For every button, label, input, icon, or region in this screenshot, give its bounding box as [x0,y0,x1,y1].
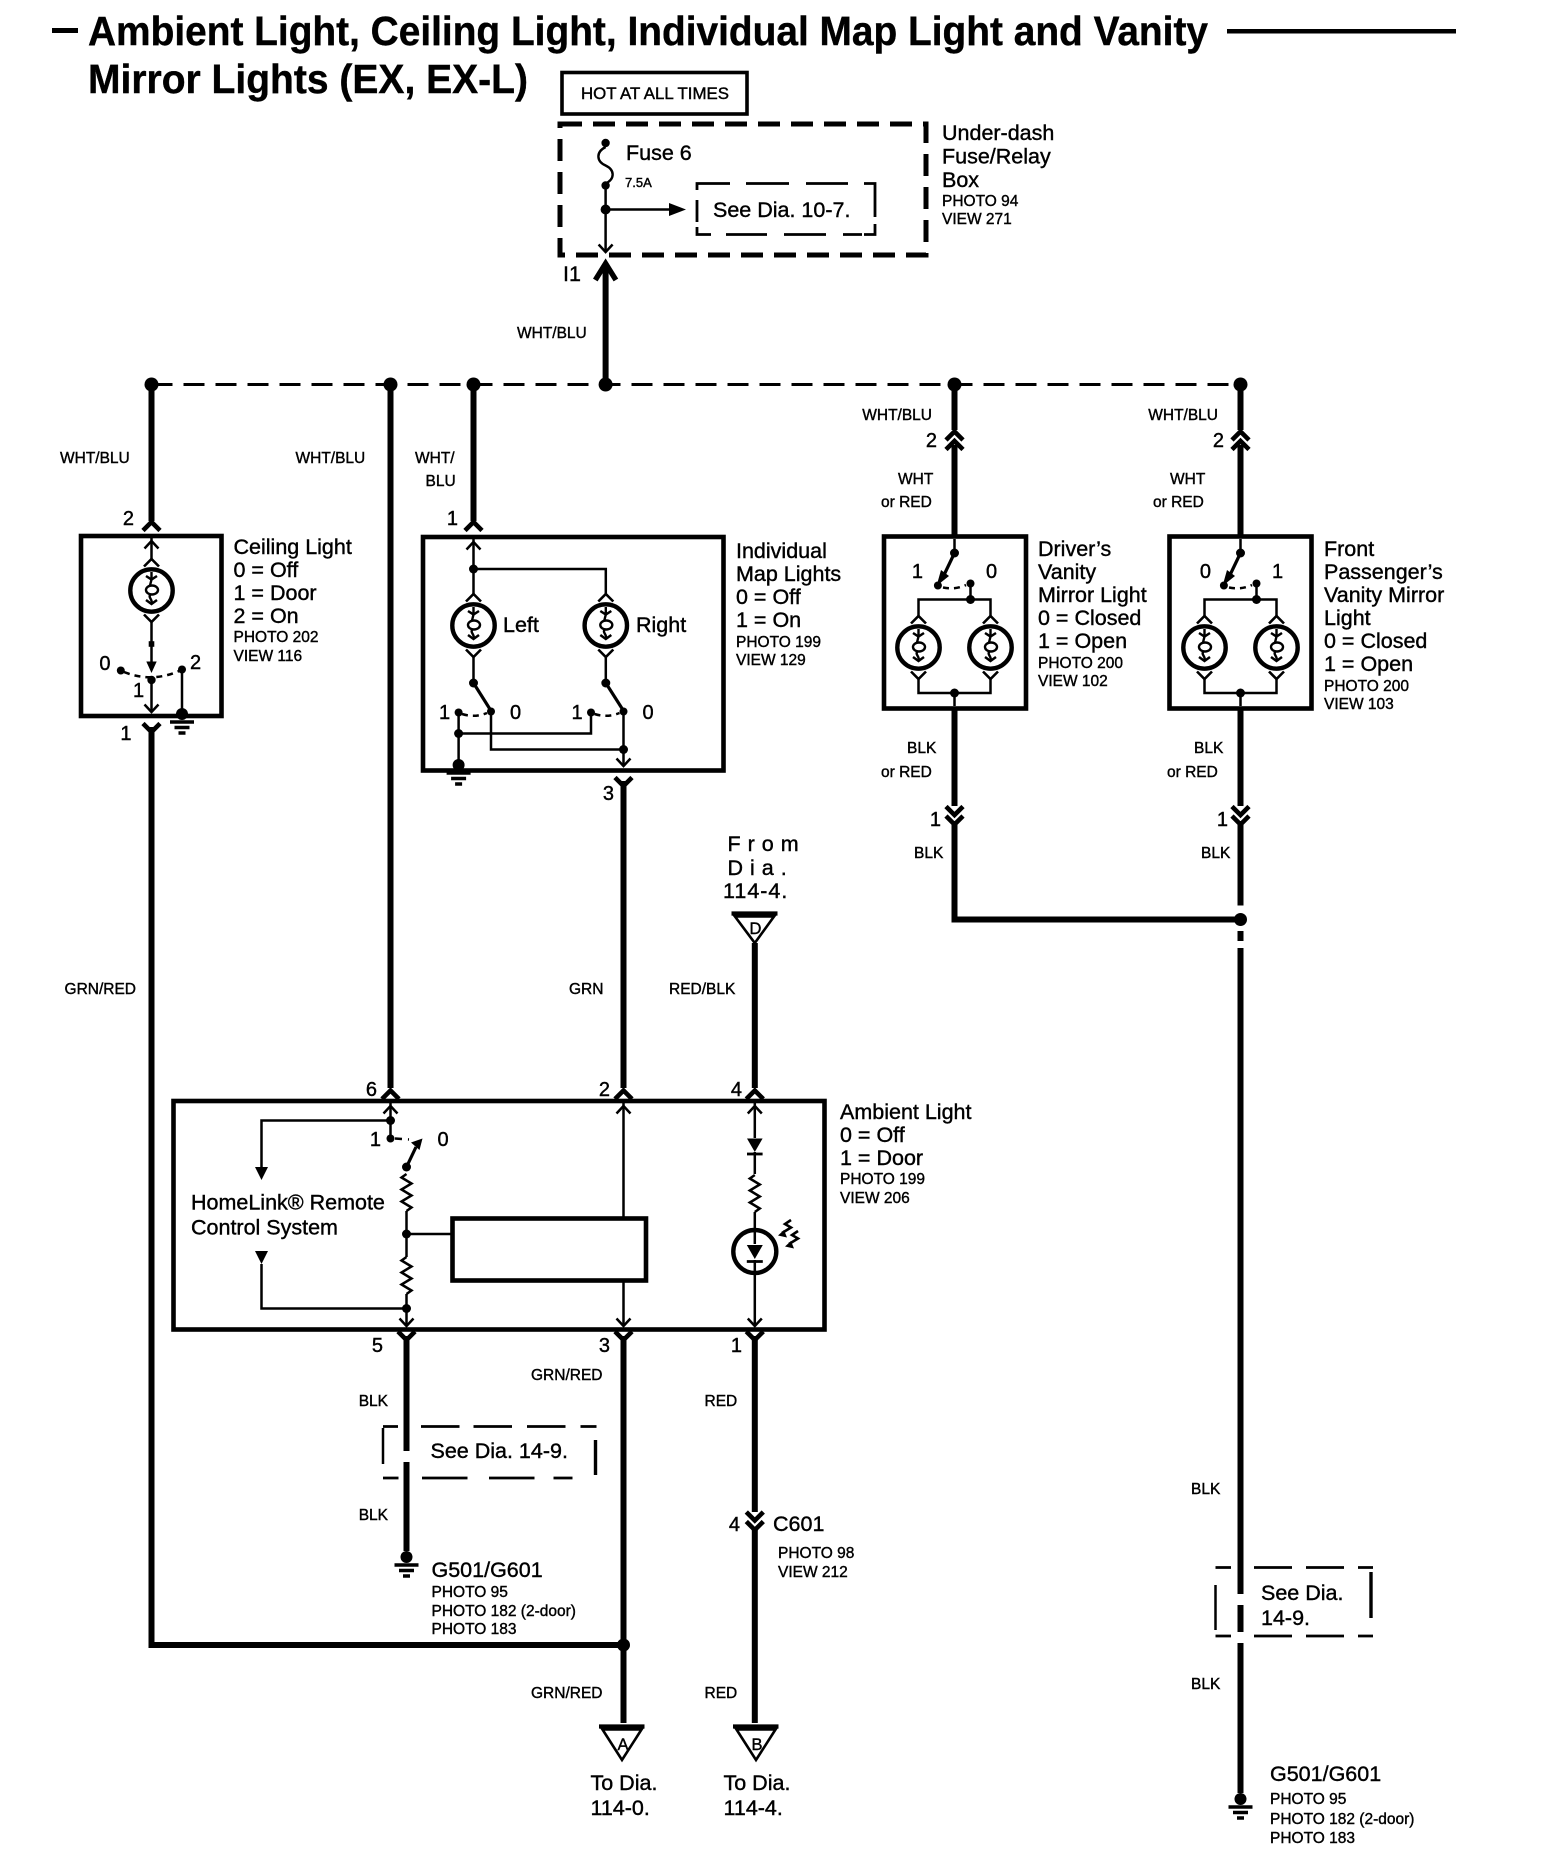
tap square [149,641,155,647]
homelink pin2 line [617,1103,631,1326]
passenger vanity mirror light box [1170,537,1312,709]
individual map lights box [423,537,724,771]
ground label [432,1558,576,1638]
left switch dashed arc [462,713,487,716]
C601 label [773,1512,854,1581]
svg-text:1: 1 [1272,561,1283,583]
svg-text:G501/G601: G501/G601 [432,1558,543,1582]
wire BLK or RED below driver vanity [952,709,958,807]
right switch dashed arc [595,713,620,716]
to dia 114-4 label [724,1771,791,1820]
svg-text:C601: C601 [773,1512,824,1536]
wire BLK or RED below passenger vanity [1238,709,1244,807]
see dia 10-7 dashed bracket [697,184,875,235]
svg-text:1 = Door: 1 = Door [234,581,317,605]
wire BLK dashed through see dia [1238,1567,1244,1645]
svg-text:114-0.: 114-0. [591,1796,650,1820]
svg-text:Control System: Control System [191,1216,338,1240]
svg-text:0: 0 [438,1129,449,1151]
svg-text:GRN: GRN [569,981,603,998]
connector homelink pin 3 [615,1332,632,1341]
see dia 14-9 left box [383,1427,597,1479]
svg-text:Fuse/Relay: Fuse/Relay [942,145,1051,169]
svg-text:0 = Off: 0 = Off [234,558,299,582]
svg-text:Map Lights: Map Lights [736,562,841,586]
triangle A to dia 114-0 [599,1727,645,1761]
svg-text:1: 1 [133,680,144,702]
left switch lever dot [487,708,495,716]
svg-text:VIEW 129: VIEW 129 [736,652,806,669]
wire label WHT or RED [1153,471,1206,511]
node bus-maplight [467,378,481,392]
svg-text:GRN/RED: GRN/RED [65,981,136,998]
svg-text:7.5A: 7.5A [625,175,652,190]
switch dashed link [395,1139,409,1140]
passenger vanity label [1324,537,1444,713]
svg-text:Vanity Mirror: Vanity Mirror [1324,583,1444,607]
left switch pivot [469,679,478,688]
svg-text:1: 1 [120,723,131,745]
svg-text:VIEW 206: VIEW 206 [840,1190,910,1207]
wire LED to pin1 exit [748,1271,762,1326]
ground G501/G601 right [1229,1793,1253,1818]
homelink control module (inner box) [453,1219,647,1281]
wire right lever to pin 3 [617,712,631,767]
svg-text:4: 4 [729,1514,740,1536]
antenna lead upper [255,1121,391,1181]
right switch lever dot [620,708,628,716]
svg-text:Light: Light [1324,606,1371,630]
svg-text:WHT/BLU: WHT/BLU [296,450,366,467]
photo arrows [778,1220,798,1249]
svg-text:PHOTO 202: PHOTO 202 [234,629,319,646]
node pin5 [402,1304,411,1313]
svg-text:VIEW 212: VIEW 212 [778,1564,848,1581]
svg-text:0: 0 [986,561,997,583]
connector I1 [563,262,616,286]
wire WHT or RED to driver vanity [952,445,958,535]
svg-text:BLK: BLK [1201,845,1231,862]
svg-text:2: 2 [190,652,201,674]
wire RED homelink pin1 down [752,1336,758,1512]
svg-text:2: 2 [123,508,134,530]
svg-text:1: 1 [731,1335,742,1357]
svg-text:Dia.: Dia. [728,856,794,880]
homelink pin6 entry arrow [384,1103,398,1139]
svg-text:Left: Left [503,613,539,637]
wire left lamp to switch [472,656,475,683]
left switch lever [474,683,491,710]
svg-text:0: 0 [1200,561,1211,583]
svg-text:PHOTO 200: PHOTO 200 [1324,678,1409,695]
svg-text:2 = On: 2 = On [234,604,299,628]
svg-text:2: 2 [926,430,937,452]
node bus-homelink [384,378,398,392]
svg-text:A: A [617,1736,628,1754]
wire right lamp to switch [605,656,608,683]
svg-text:BLK: BLK [359,1507,389,1524]
connector homelink pin 2 [615,1091,632,1100]
wire R1 to node [405,1211,408,1257]
ground in map box [447,759,471,784]
homelink switch lever [402,1139,423,1172]
svg-text:1: 1 [370,1129,381,1151]
arrow to see dia 10-7 [606,203,686,216]
svg-text:I1: I1 [563,262,581,286]
node R1-R2 [402,1230,411,1239]
svg-text:VIEW 116: VIEW 116 [234,648,303,665]
svg-text:WHT/: WHT/ [415,450,455,467]
exit arrow inside fuse box [599,245,613,253]
svg-text:1: 1 [572,702,583,724]
wire left lever to pin3 rail [491,712,624,750]
title line 1 [52,8,1456,54]
wire bus to homelink pin 6 [388,385,394,1089]
map lights label [736,539,841,669]
driver vanity lamp rail [919,584,991,618]
LED photocoupler [733,1230,776,1273]
svg-text:114-4.: 114-4. [724,1796,783,1820]
svg-text:1 = Open: 1 = Open [1038,629,1127,653]
resistor R2 [402,1257,412,1294]
passenger vanity right bulb [1255,616,1297,679]
wire bus to ceiling light [149,385,155,522]
svg-text:PHOTO 98: PHOTO 98 [778,1545,854,1562]
right switch pivot [601,679,610,688]
svg-text:PHOTO 182 (2-door): PHOTO 182 (2-door) [1270,1811,1414,1828]
ceiling light box [81,536,222,716]
svg-text:Mirror Light: Mirror Light [1038,583,1147,607]
driver vanity left bulb [897,616,939,679]
svg-text:HomeLink® Remote: HomeLink® Remote [191,1191,385,1215]
resistor R1 [402,1174,412,1211]
svg-text:VIEW 271: VIEW 271 [942,211,1012,228]
wire BLK homelink pin5 [404,1336,410,1426]
passenger vanity left bulb [1183,616,1225,679]
triangle B to dia 114-4 [733,1727,779,1761]
svg-text:PHOTO 183: PHOTO 183 [1270,1830,1355,1847]
node throw1 tie [454,729,463,738]
connector map pin 1 [465,522,482,531]
svg-text:1: 1 [1217,809,1228,831]
passenger vanity lamp rail [1205,584,1277,618]
left switch throw 1 [455,709,463,717]
wire BLK to ground [1238,1645,1244,1793]
svg-text:BLK: BLK [359,1393,389,1410]
antenna lead lower [255,1251,407,1309]
svg-text:Ceiling Light: Ceiling Light [234,535,352,559]
svg-text:WHT: WHT [898,471,934,488]
node homelink feed [386,1116,395,1125]
svg-text:0 = Closed: 0 = Closed [1324,629,1427,653]
svg-text:Right: Right [636,613,686,637]
wire BLK passenger vanity down [1238,821,1244,1567]
node pin3 rail [619,745,628,754]
homelink label [191,1191,385,1240]
wire switch to pin 1 [145,678,159,712]
passenger vanity switch [1220,539,1261,590]
svg-text:4: 4 [731,1079,742,1101]
svg-text:B: B [751,1736,762,1754]
connector map pin 3 [615,778,632,787]
wire bus to map lights [471,385,477,522]
svg-text:0: 0 [643,702,654,724]
connector ceiling pin 2 [143,522,160,531]
ceiling light label [234,535,352,665]
wire BLK driver vanity to junction [955,821,1241,920]
under-dash box label [942,121,1054,228]
passenger vanity bottom rail [1205,678,1277,706]
connector homelink pin 5 [398,1332,415,1341]
wire I1 to bus WHT/BLU [603,266,609,385]
right map bulb [585,594,627,657]
svg-text:0: 0 [99,653,110,675]
svg-text:PHOTO 94: PHOTO 94 [942,193,1019,210]
svg-text:From: From [728,832,806,856]
wire GRN/RED homelink pin3 down [621,1336,627,1723]
connector C601 [746,1512,763,1530]
connector 2 passenger vanity [1232,432,1249,450]
svg-text:0 = Closed: 0 = Closed [1038,606,1141,630]
connector ceiling pin 1 [143,724,160,733]
svg-text:To Dia.: To Dia. [591,1771,658,1795]
see dia 14-9 right box [1216,1568,1374,1637]
driver vanity label [1038,537,1147,690]
wire GRN map to homelink pin 2 [621,781,627,1088]
switch throw 0 [117,667,125,675]
svg-text:GRN/RED: GRN/RED [531,1685,602,1702]
svg-text:See Dia.: See Dia. [1261,1581,1343,1605]
svg-text:VIEW 103: VIEW 103 [1324,696,1394,713]
ground label [1270,1762,1414,1847]
HOT AT ALL TIMES box [562,73,747,115]
switch dashed arc [124,671,179,677]
wire throw2 to ground [181,670,184,711]
wire node to module [407,1233,453,1236]
svg-text:See Dia. 14-9.: See Dia. 14-9. [431,1439,568,1463]
under-dash fuse/relay box (dashed) [560,124,926,255]
svg-text:VIEW 102: VIEW 102 [1038,673,1108,690]
svg-text:Box: Box [942,168,979,192]
svg-text:D: D [750,920,762,938]
svg-text:RED/BLK: RED/BLK [669,981,736,998]
wire throw1-left down to ground [457,713,460,764]
svg-text:PHOTO 182 (2-door): PHOTO 182 (2-door) [432,1603,576,1620]
wiper arrow [146,662,156,674]
svg-text:BLK: BLK [907,740,937,757]
svg-text:RED: RED [705,1685,738,1702]
driver vanity mirror light box [884,537,1026,709]
svg-text:or RED: or RED [881,764,932,781]
node GRN/RED junction [617,1639,630,1652]
to dia 114-0 label [591,1771,658,1820]
wire bulb to switch [150,621,153,663]
svg-text:RED: RED [705,1393,738,1410]
connector 1 passenger vanity [1232,807,1249,825]
svg-text:or RED: or RED [1167,764,1218,781]
wire label BLK or RED [1167,740,1224,781]
svg-text:See Dia. 10-7.: See Dia. 10-7. [713,198,850,222]
wire BLK to ground [404,1484,410,1551]
junction dot in fuse box [601,205,611,215]
svg-text:WHT/BLU: WHT/BLU [60,450,130,467]
node bus-fuse [599,378,613,392]
map entry arrow [467,539,481,569]
node bus-passenger-vanity [1234,378,1248,392]
svg-text:Ambient Light: Ambient Light [840,1100,971,1124]
wire fuse to bottom of box [604,186,607,253]
svg-text:Fuse 6: Fuse 6 [626,141,692,165]
ground G501/G601 left [395,1551,419,1576]
svg-text:Front: Front [1324,537,1374,561]
svg-text:BLK: BLK [1191,1481,1221,1498]
connector homelink pin 4 [746,1091,763,1100]
homelink remote control system box [174,1101,825,1330]
node map feed split [469,565,478,574]
wire tie of both throw1 [459,713,591,734]
svg-text:14-9.: 14-9. [1261,1606,1310,1630]
wire bus to driver vanity connector [952,385,958,431]
svg-text:WHT/BLU: WHT/BLU [1148,407,1218,424]
svg-text:or RED: or RED [1153,494,1204,511]
driver vanity bottom rail [919,678,991,706]
connector 1 driver vanity [946,807,963,825]
svg-text:2: 2 [599,1079,610,1101]
svg-text:5: 5 [372,1335,383,1357]
svg-text:Under-dash: Under-dash [942,121,1054,145]
svg-text:Passenger’s: Passenger’s [1324,560,1443,584]
svg-text:G501/G601: G501/G601 [1270,1762,1381,1786]
svg-text:WHT/BLU: WHT/BLU [517,325,587,342]
wire GRN/RED ceiling to junction (long left drop) [152,727,624,1645]
svg-text:0: 0 [510,702,521,724]
wire label BLK or RED [881,740,937,781]
svg-text:1 = On: 1 = On [736,608,801,632]
svg-text:1 = Door: 1 = Door [840,1146,923,1170]
fuse 6 element [598,139,612,190]
from dia 114-4 label [723,832,806,903]
ceiling light bulb [130,559,172,622]
svg-text:1: 1 [930,809,941,831]
svg-text:Individual: Individual [736,539,827,563]
svg-text:WHT/BLU: WHT/BLU [862,407,932,424]
wire to right lamp [474,569,606,594]
wire BLK dashed through see dia [404,1426,410,1484]
svg-text:1 = Open: 1 = Open [1324,652,1413,676]
svg-text:PHOTO 95: PHOTO 95 [1270,1791,1346,1808]
wire RED/BLK triangle D to homelink pin 4 [752,943,758,1088]
svg-text:PHOTO 95: PHOTO 95 [432,1584,508,1601]
svg-text:1: 1 [447,508,458,530]
connector homelink pin 1 [746,1332,763,1341]
svg-text:PHOTO 199: PHOTO 199 [736,634,821,651]
driver vanity right bulb [969,616,1011,679]
svg-text:Mirror Lights (EX, EX-L): Mirror Lights (EX, EX-L) [88,56,528,102]
svg-text:BLK: BLK [1191,1676,1221,1693]
svg-text:WHT: WHT [1170,471,1206,488]
homelink switch throw 1 [387,1135,395,1143]
svg-text:PHOTO 199: PHOTO 199 [840,1171,925,1188]
svg-text:0 = Off: 0 = Off [840,1123,905,1147]
resistor R3 [750,1175,760,1212]
svg-text:or RED: or RED [881,494,932,511]
svg-text:PHOTO 200: PHOTO 200 [1038,655,1123,672]
svg-text:PHOTO 183: PHOTO 183 [432,1621,517,1638]
wire label WHT or RED [881,471,934,511]
connector homelink pin 6 [382,1091,399,1100]
wire R2 to exit [405,1294,408,1324]
node bus-ceiling [145,378,159,392]
node bus-driver-vanity [948,378,962,392]
svg-text:Vanity: Vanity [1038,560,1096,584]
svg-text:114-4.: 114-4. [723,879,788,903]
svg-text:BLK: BLK [914,845,944,862]
svg-text:BLK: BLK [1194,740,1224,757]
switch throw 2 [178,666,186,674]
bus splice line (dashed) [152,383,1241,386]
svg-text:0 = Off: 0 = Off [736,585,801,609]
svg-text:1: 1 [912,561,923,583]
left map bulb [452,594,494,657]
wire RED C601 to triangle B [752,1527,758,1723]
svg-text:1: 1 [439,702,450,724]
svg-text:To Dia.: To Dia. [724,1771,791,1795]
right switch throw 1 [587,709,595,717]
svg-text:BLU: BLU [426,473,456,490]
svg-text:3: 3 [599,1335,610,1357]
pin5 exit arrow [400,1319,414,1327]
svg-text:Ambient Light, Ceiling Light,: Ambient Light, Ceiling Light, Individual… [88,8,1208,54]
ceiling light entry arrow [145,538,159,559]
node vanity grounds join [1234,913,1247,926]
wire WHT or RED to passenger vanity [1238,445,1244,535]
svg-text:2: 2 [1213,430,1224,452]
driver vanity switch [934,539,975,590]
connector 2 driver vanity [946,432,963,450]
wire bus to passenger vanity connector [1238,385,1244,431]
svg-text:6: 6 [366,1079,377,1101]
svg-text:HOT AT ALL TIMES: HOT AT ALL TIMES [581,85,729,103]
homelink pin4 line [748,1103,762,1138]
svg-text:3: 3 [603,783,614,805]
svg-text:Driver’s: Driver’s [1038,537,1111,561]
ground in ceiling light [170,708,194,733]
right switch lever [606,683,623,710]
wire R3 to LED [754,1212,757,1230]
diode D1 [747,1139,763,1175]
triangle D from dia 114-4 [732,914,778,944]
svg-text:GRN/RED: GRN/RED [531,1367,602,1384]
ambient light label [840,1100,971,1207]
